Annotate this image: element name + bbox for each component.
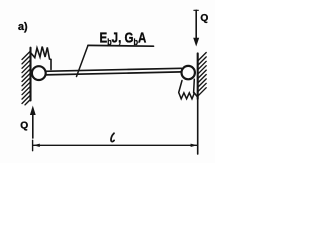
svg-text:Q: Q	[200, 13, 208, 24]
svg-text:Q: Q	[20, 120, 28, 131]
svg-text:EbJ, GbA: EbJ, GbA	[100, 29, 147, 47]
svg-text:a): a)	[18, 21, 28, 33]
